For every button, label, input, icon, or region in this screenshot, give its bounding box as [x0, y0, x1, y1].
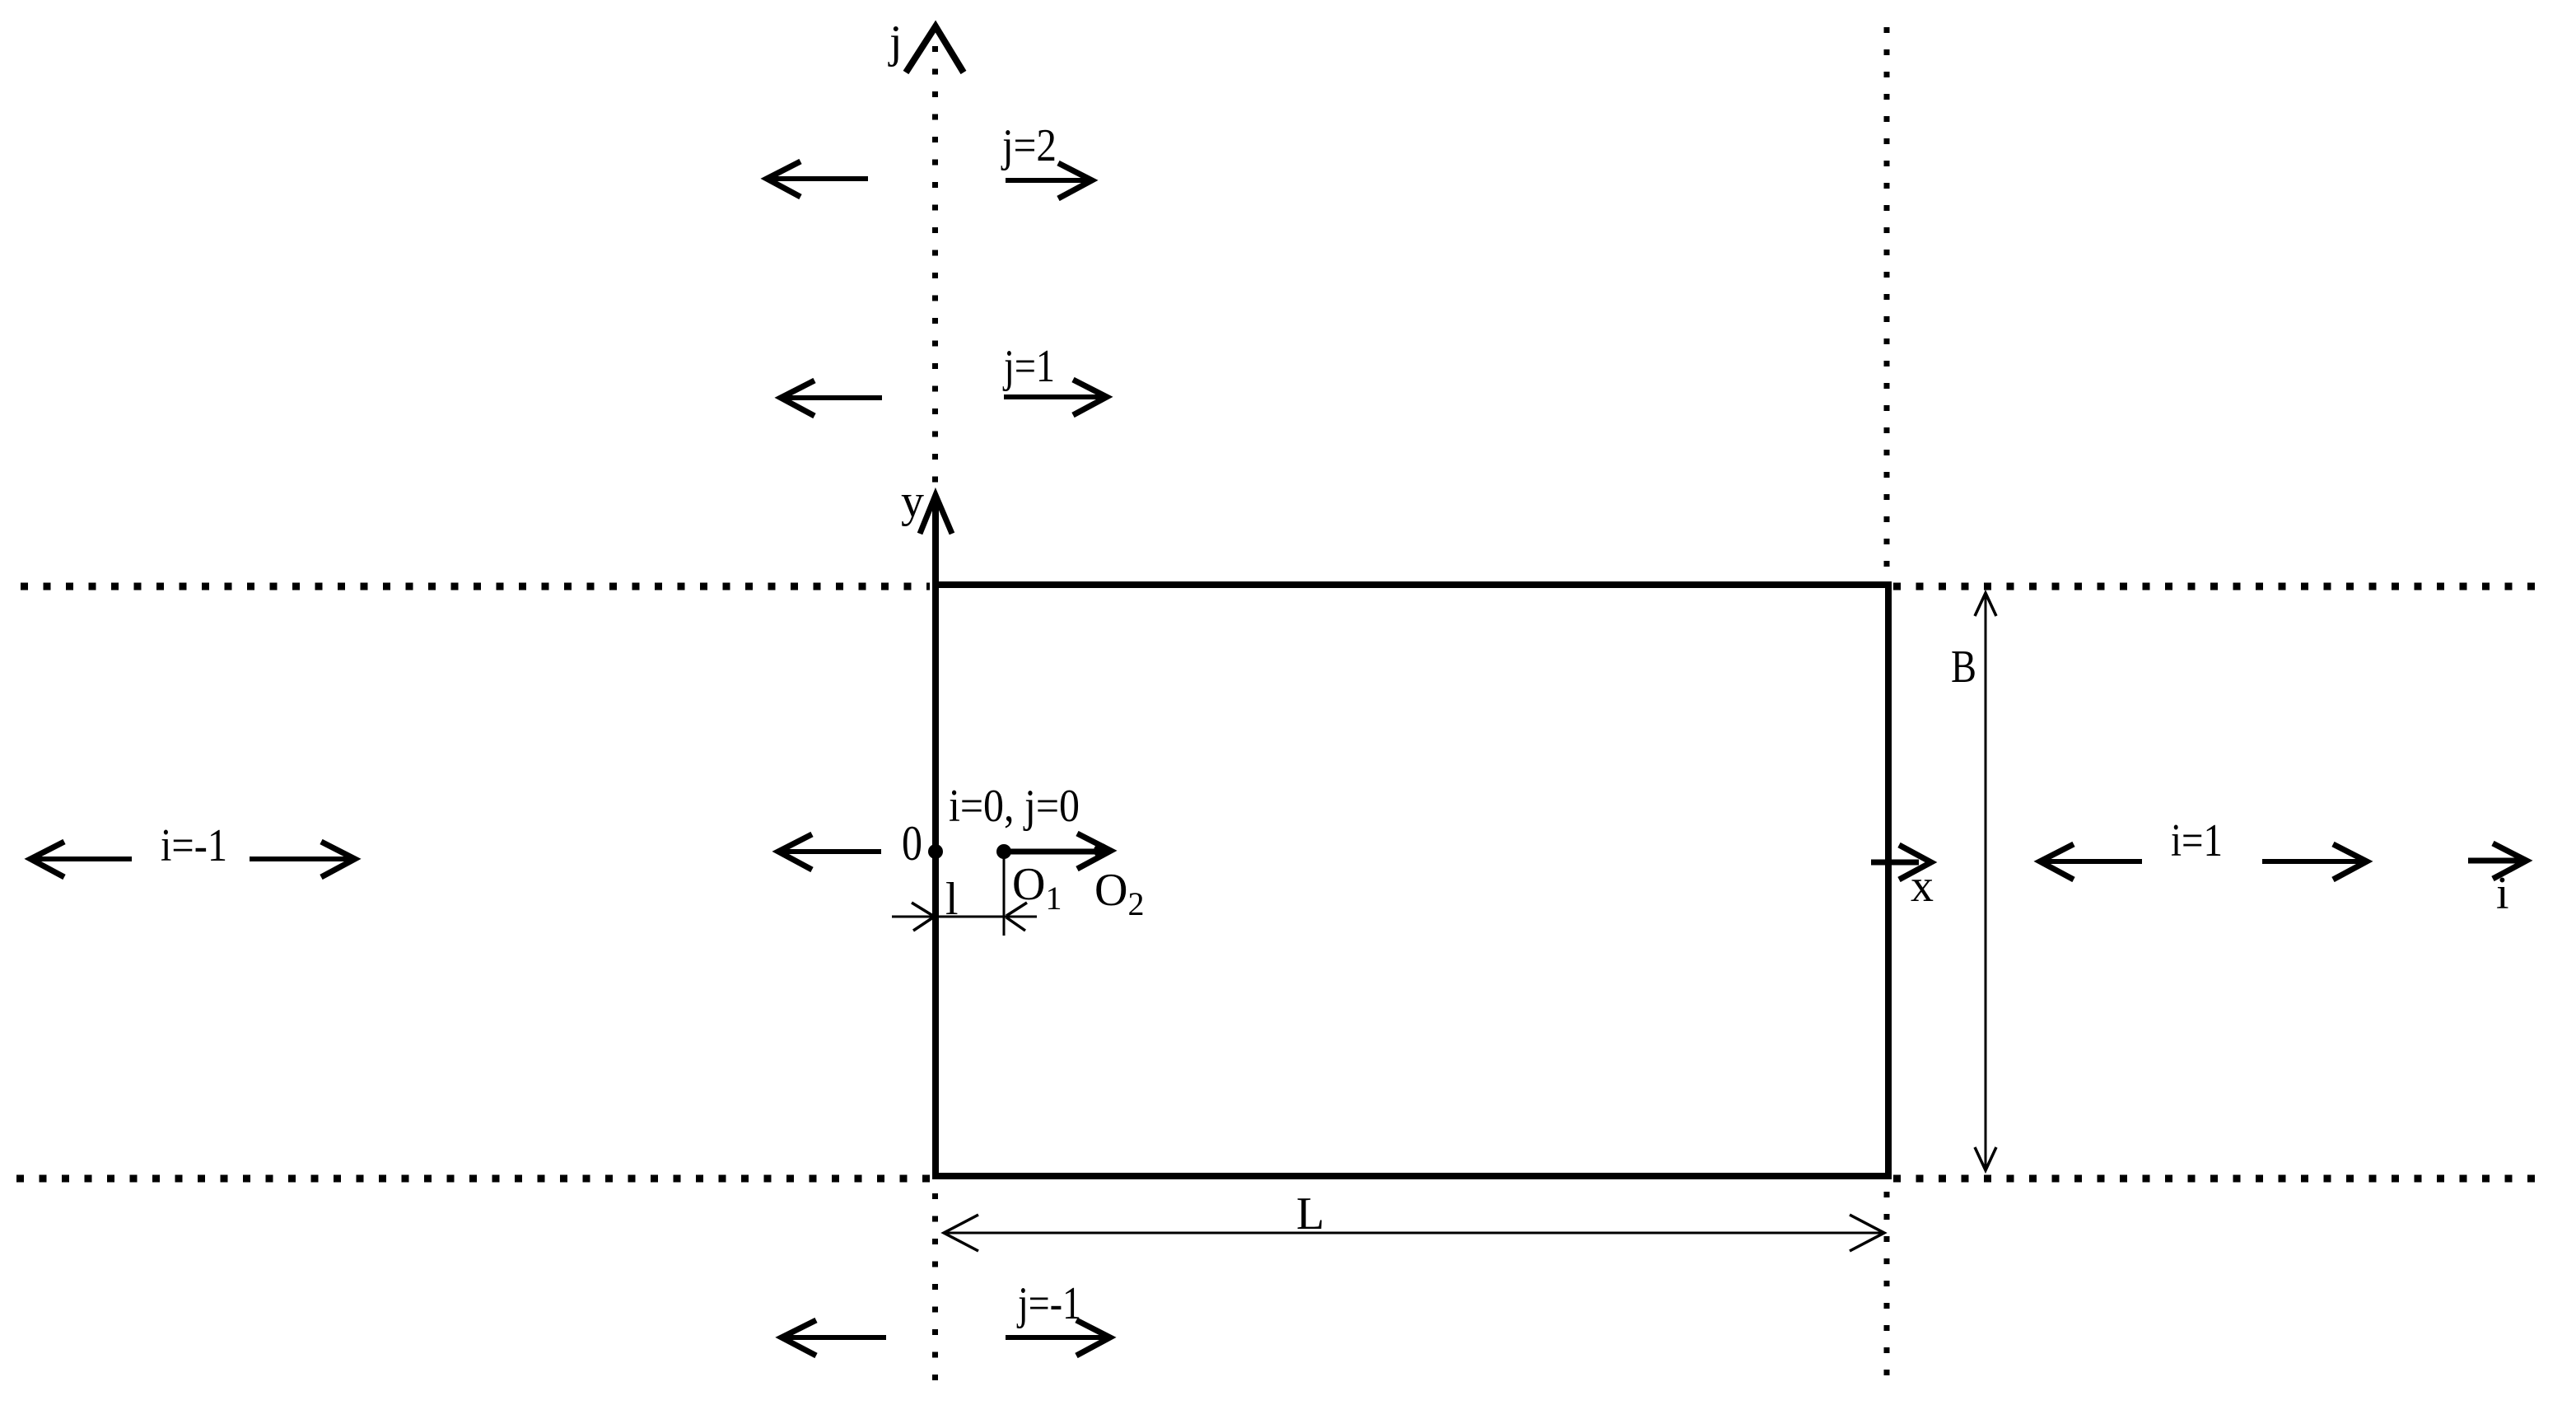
L dimension arrowhead left	[944, 1215, 978, 1251]
svg-text:j: j	[888, 16, 903, 68]
i=1 right arrow	[2262, 859, 2362, 864]
svg-text:j=-1: j=-1	[1016, 1278, 1081, 1329]
L dimension arrowhead right	[1850, 1215, 1884, 1251]
l dimension line	[892, 916, 1037, 918]
svg-text:i=0, j=0: i=0, j=0	[949, 781, 1080, 832]
B dimension arrowhead top	[1975, 593, 1996, 616]
j=-1 right arrow	[1006, 1335, 1105, 1340]
j=-1 left arrow	[783, 1335, 886, 1340]
j=2 right arrow	[1006, 178, 1087, 183]
svg-text:y: y	[901, 476, 924, 527]
l dimension arrowhead left (pointing right)	[912, 903, 933, 931]
grid line j=-1 top (horizontal dotted bottom, left segment)	[16, 1175, 930, 1183]
node O1 dot	[996, 844, 1011, 859]
grid line j=-1 top (horizontal dotted bottom, right segment)	[1893, 1175, 2546, 1183]
grid line j axis (vertical dotted, lower segment)	[932, 1193, 938, 1393]
svg-text:i: i	[2496, 868, 2509, 919]
j=1 left arrow	[782, 395, 882, 400]
j axis arrowhead	[906, 26, 964, 72]
svg-text:i=1: i=1	[2171, 815, 2223, 866]
svg-text:j=1: j=1	[1002, 341, 1055, 392]
B dimension arrowhead bottom	[1975, 1147, 1996, 1170]
j=1 right arrow	[1004, 394, 1102, 399]
i=1 left arrow	[2042, 859, 2142, 864]
grid line j=0 (horizontal dotted, left segment)	[21, 583, 930, 590]
grid line j=0 (horizontal dotted, right segment)	[1893, 583, 2548, 590]
l dimension arrowhead right (pointing left)	[1006, 903, 1027, 931]
origin row left arrow	[780, 849, 881, 854]
grid line i=1 (vertical dotted, lower segment)	[1884, 1192, 1890, 1390]
svg-text:i=-1: i=-1	[161, 820, 227, 871]
grid line j axis (vertical dotted, upper segment)	[932, 46, 938, 488]
B dimension line	[1985, 595, 1987, 1169]
svg-text:j=2: j=2	[1001, 120, 1057, 171]
x axis arrow	[1871, 860, 1919, 866]
svg-text:B: B	[1951, 642, 1976, 693]
O1 extension line	[1003, 857, 1006, 936]
y axis line	[932, 497, 939, 586]
node origin dot	[928, 844, 943, 859]
i=-1 left arrow	[32, 857, 132, 861]
svg-text:0: 0	[902, 816, 922, 871]
svg-text:x: x	[1911, 861, 1934, 912]
i=-1 right arrow	[250, 857, 350, 861]
domain rectangle	[936, 585, 1888, 1176]
grid line i=1 (vertical dotted, upper segment)	[1884, 27, 1890, 579]
L dimension line	[945, 1232, 1883, 1235]
O1 to O2 arrow	[1004, 849, 1097, 855]
j=2 left arrow	[768, 176, 868, 181]
y axis arrowhead	[920, 495, 952, 534]
i axis arrow (far right)	[2468, 858, 2522, 864]
svg-text:L: L	[1296, 1188, 1324, 1239]
